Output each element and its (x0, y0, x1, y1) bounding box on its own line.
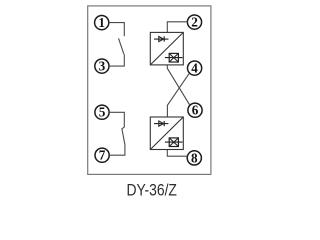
diode D1 (154, 36, 168, 41)
wire block U1 to terminal 2 (167, 22, 187, 33)
svg-text:3: 3 (99, 59, 106, 74)
wire from terminal 5 (109, 112, 124, 127)
crossing wire terminal 4 to U2 top (167, 74, 189, 117)
measuring element M1 (crossed box) (165, 53, 183, 62)
rectifier block U2 (150, 117, 183, 150)
relay case outline (88, 6, 211, 175)
rectifier block U1 (150, 32, 183, 65)
terminal 3 (95, 59, 109, 74)
diode D2 (154, 121, 168, 126)
terminal 6 (188, 103, 202, 118)
wire from terminal 1 (109, 23, 124, 37)
wire block U2 to terminal 8 (167, 149, 187, 156)
wire to terminal 3 (109, 54, 124, 66)
terminal 5 (95, 105, 109, 120)
svg-text:8: 8 (191, 150, 198, 165)
contact blade K2 (122, 127, 125, 145)
measuring element M2 (crossed box) (165, 138, 183, 147)
svg-text:DY-36/Z: DY-36/Z (126, 182, 177, 200)
svg-text:4: 4 (191, 61, 198, 76)
svg-text:2: 2 (191, 15, 198, 30)
terminal 1 (95, 15, 109, 30)
terminal 2 (187, 15, 201, 30)
svg-text:1: 1 (98, 15, 105, 30)
crossing wire U1 bottom to terminal 6 (167, 65, 189, 105)
terminal 4 (188, 61, 202, 76)
svg-text:6: 6 (192, 103, 199, 118)
wire to terminal 7 (109, 145, 125, 156)
terminal 8 (187, 150, 201, 165)
svg-text:7: 7 (99, 148, 106, 163)
terminal 7 (95, 148, 109, 163)
contact blade K1 (119, 38, 124, 54)
svg-text:5: 5 (99, 105, 106, 120)
